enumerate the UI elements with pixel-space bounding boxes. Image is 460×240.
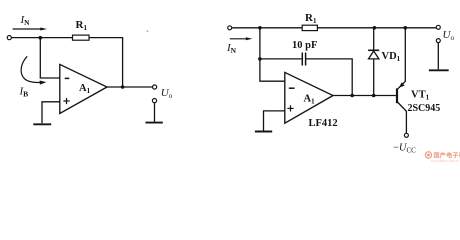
watermark logo	[425, 151, 460, 163]
svg-text:10 pF: 10 pF	[292, 40, 317, 51]
wire: diode bottom lead	[373, 59, 375, 96]
wire: left inverting input drop	[40, 38, 60, 78]
wire: right input horizontal to R1	[232, 27, 302, 29]
node: left output terminal Uo	[153, 85, 157, 89]
capacitor C 10pF plates	[302, 53, 305, 66]
transistor VT1	[397, 28, 406, 133]
resistor R1 (right)	[302, 25, 317, 30]
wire: diode top lead	[373, 28, 375, 51]
svg-text:VT1: VT1	[411, 90, 430, 102]
plus sign (right op-amp)	[287, 105, 293, 111]
node: right lower port terminal	[436, 39, 440, 43]
current arrow IN (left)	[13, 28, 47, 31]
resistor R1 (left)	[73, 35, 90, 40]
scan speck	[147, 30, 149, 32]
minus sign (left op-amp)	[65, 77, 70, 79]
svg-text:Uo: Uo	[161, 87, 173, 100]
wire: left non-inverting input to ground	[42, 102, 60, 124]
svg-text:Uo: Uo	[443, 29, 455, 42]
wire: left input horizontal	[11, 37, 72, 39]
node: emitter terminal	[404, 133, 408, 137]
ground (left op-amp +)	[33, 123, 51, 125]
wire: left R1 to feedback corner	[89, 38, 123, 87]
node: left output junction	[121, 85, 125, 89]
current arrow IB curved	[21, 56, 46, 84]
svg-text:R1: R1	[76, 19, 88, 32]
node: left input terminal	[7, 36, 11, 40]
node: right input junction	[258, 26, 262, 30]
svg-text:2SC945: 2SC945	[408, 103, 441, 114]
svg-text:VD1: VD1	[382, 51, 401, 63]
node: right output terminal Uo	[436, 25, 440, 29]
wire: right op-amp non-inverting to ground	[264, 111, 285, 131]
node: collector rail junction	[404, 26, 408, 30]
svg-text:IN: IN	[20, 14, 31, 27]
plus sign (left op-amp)	[63, 98, 69, 104]
ground (left output port)	[146, 122, 163, 124]
wire: left output	[107, 86, 153, 88]
node: capacitor tap junction	[258, 57, 262, 61]
current arrow IN (right)	[230, 37, 253, 40]
node: left input junction	[39, 36, 43, 40]
node: left lower terminal	[152, 99, 156, 103]
wire: capacitor right lead to feedback corner	[306, 59, 352, 96]
wire: right output port drop to ground	[437, 43, 439, 70]
minus sign (right op-amp)	[289, 87, 295, 89]
wire: left lower terminal to ground	[154, 103, 156, 122]
node: cap feedback output junction	[350, 94, 354, 98]
node: diode output junction	[372, 94, 376, 98]
svg-text:www.dzkfw.com.cn: www.dzkfw.com.cn	[431, 159, 460, 163]
wire: right input drop to inverting input	[260, 28, 285, 81]
wire: top rail from R1 to output terminal	[317, 27, 436, 29]
wire: right op-amp output to transistor base	[333, 95, 396, 97]
svg-text:−UCC: −UCC	[393, 143, 416, 155]
svg-text:IN: IN	[226, 42, 237, 55]
ground (right op-amp +)	[255, 131, 272, 133]
op-amp A1 (right) triangle	[285, 72, 333, 123]
svg-text:IB: IB	[19, 86, 29, 99]
ground (right output port)	[429, 69, 449, 71]
op-amp A1 (left) triangle	[60, 64, 107, 113]
svg-text:LF412: LF412	[309, 118, 338, 129]
node: right input terminal	[228, 26, 232, 30]
svg-text:R1: R1	[305, 12, 317, 25]
diode VD1	[368, 50, 379, 59]
wire: capacitor left lead	[260, 58, 302, 60]
node: diode top rail junction	[373, 26, 377, 30]
